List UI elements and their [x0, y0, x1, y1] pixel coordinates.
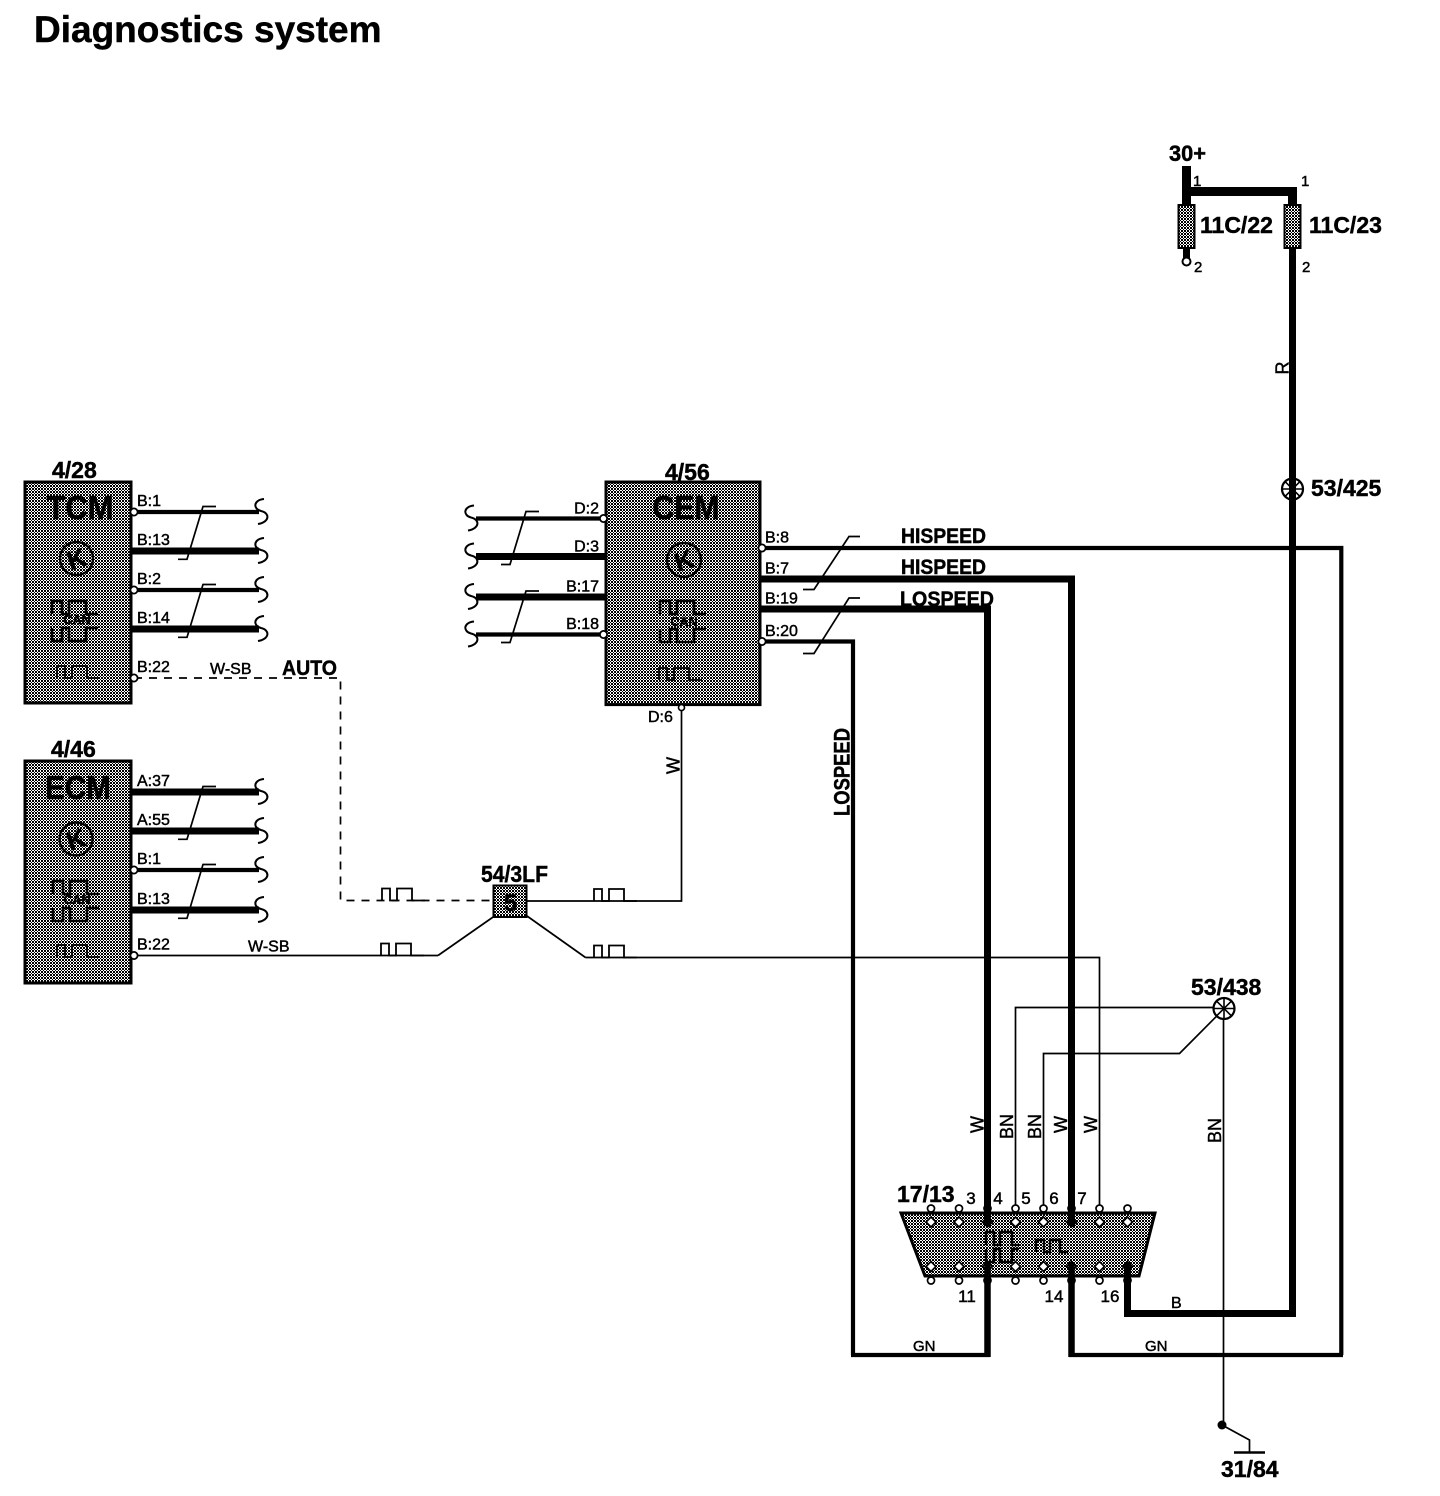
svg-text:B:14: B:14 — [137, 610, 170, 627]
module CEM 4/56 — [606, 459, 760, 705]
twisted pair marker CEM B:17/B:18 — [501, 591, 539, 643]
svg-text:GN: GN — [913, 1338, 936, 1355]
svg-text:11C/23: 11C/23 — [1309, 212, 1382, 238]
svg-text:B:2: B:2 — [137, 571, 161, 588]
svg-text:B:7: B:7 — [765, 561, 789, 578]
wire stub pin 11 to GN bus — [984, 1262, 991, 1357]
CEM pin B:18 wire — [465, 616, 607, 647]
svg-text:4/46: 4/46 — [51, 736, 96, 762]
svg-text:BN: BN — [997, 1114, 1017, 1139]
svg-text:B: B — [1171, 1295, 1182, 1312]
ECM pin B:1 wire — [130, 851, 267, 882]
svg-text:11C/22: 11C/22 — [1200, 212, 1273, 238]
svg-text:B:1: B:1 — [137, 851, 161, 868]
svg-text:5: 5 — [1021, 1189, 1030, 1208]
svg-text:CEM: CEM — [653, 489, 720, 526]
svg-text:11: 11 — [958, 1287, 976, 1306]
svg-text:D:3: D:3 — [574, 539, 599, 556]
fuse 11C/22 — [1179, 205, 1273, 248]
wire connector pin 6 to 53/438 — [1044, 1016, 1217, 1205]
svg-text:B:1: B:1 — [137, 493, 161, 510]
svg-text:53/438: 53/438 — [1191, 974, 1262, 1000]
svg-text:53/425: 53/425 — [1311, 475, 1382, 501]
wire stub pin 4 top — [984, 1204, 991, 1226]
svg-text:B:17: B:17 — [566, 579, 599, 596]
svg-text:CAN: CAN — [670, 615, 697, 629]
ECM pin A:37 wire — [131, 773, 267, 804]
wire stub pin 14 to GN bus — [1068, 1262, 1075, 1357]
svg-text:4/28: 4/28 — [52, 457, 97, 483]
GN bus right wire — [1069, 1353, 1343, 1357]
CEM pin D:2 wire — [465, 501, 607, 531]
connector pin number labels 3 4 5 6 7 — [966, 1189, 1086, 1208]
svg-text:B:22: B:22 — [137, 937, 170, 954]
twisted pair marker CEM B:19/B:20 — [803, 598, 860, 654]
TCM pin B:22 dashed wire W-SB AUTO — [130, 657, 493, 901]
ground 31/84 — [1218, 1421, 1279, 1483]
svg-text:30+: 30+ — [1169, 141, 1206, 166]
svg-text:LOSPEED: LOSPEED — [830, 728, 855, 816]
splice 54/3LF — [481, 861, 548, 917]
CEM pin B:7 wire HISPEED — [760, 556, 1072, 1209]
svg-text:W-SB: W-SB — [210, 661, 251, 678]
twisted pair marker TCM B:2/B:14 — [178, 585, 216, 638]
twisted pair marker CEM B:8/B:7 — [803, 537, 860, 590]
svg-text:BN: BN — [1205, 1118, 1225, 1143]
wire 30+ feed — [1182, 166, 1191, 205]
CEM pin B:17 wire — [465, 579, 606, 610]
svg-text:W: W — [1081, 1116, 1101, 1133]
connector 17/13 top row pins — [926, 1205, 1132, 1227]
connector pin number labels 11 14 16 — [958, 1287, 1119, 1306]
svg-text:B:19: B:19 — [765, 591, 798, 608]
CEM pin B:19 wire LOSPEED — [760, 588, 994, 1209]
svg-text:ECM: ECM — [45, 769, 111, 806]
TCM pin B:13 wire — [131, 532, 267, 563]
ECM pin A:55 wire — [131, 812, 267, 843]
svg-text:2: 2 — [1194, 259, 1202, 276]
svg-text:B:13: B:13 — [137, 891, 170, 908]
CEM pin D:3 wire — [465, 539, 606, 569]
TCM pin B:14 wire — [131, 610, 267, 641]
svg-text:D:2: D:2 — [574, 501, 599, 518]
twisted pair marker TCM B:1/B:13 — [178, 507, 216, 560]
svg-text:HISPEED: HISPEED — [901, 525, 986, 548]
svg-text:5: 5 — [504, 890, 517, 917]
connector 17/13 (DLC) — [897, 1181, 1155, 1276]
connector 53/425 — [1282, 475, 1382, 501]
svg-text:W: W — [664, 757, 684, 774]
CEM pin B:8 wire HISPEED — [758, 525, 1341, 1355]
wire splice lower branch to connector pin (K-line) — [527, 916, 1100, 1205]
svg-text:W: W — [1051, 1116, 1071, 1133]
svg-text:W-SB: W-SB — [248, 939, 289, 956]
svg-text:B:22: B:22 — [137, 659, 170, 676]
ECM pin B:13 wire — [131, 891, 267, 922]
TCM pin B:2 wire — [130, 571, 267, 602]
svg-text:BN: BN — [1025, 1114, 1045, 1139]
connector 17/13 bottom row pins — [926, 1262, 1132, 1284]
svg-text:2: 2 — [1302, 259, 1310, 276]
svg-text:1: 1 — [1301, 173, 1309, 190]
svg-text:16: 16 — [1101, 1287, 1120, 1306]
connector internal wave symbols — [986, 1232, 1068, 1262]
twisted pair marker CEM D:2/D:3 — [501, 512, 539, 565]
CEM pin D:6 — [648, 705, 685, 726]
svg-text:54/3LF: 54/3LF — [481, 861, 548, 887]
svg-text:17/13: 17/13 — [897, 1181, 955, 1207]
svg-text:AUTO: AUTO — [282, 657, 337, 680]
svg-text:CAN: CAN — [63, 613, 90, 627]
GN bus left wire — [851, 1353, 990, 1357]
svg-text:GN: GN — [1145, 1338, 1168, 1355]
svg-text:4: 4 — [993, 1189, 1002, 1208]
svg-text:B:13: B:13 — [137, 532, 170, 549]
svg-text:Diagnostics system: Diagnostics system — [34, 9, 382, 50]
wire R from fuse 11C/23 down to splice — [1128, 248, 1293, 1314]
wire connector pin 5 to 53/438 — [1016, 1008, 1214, 1206]
fuse 11C/22 pin 2 terminal — [1183, 248, 1203, 276]
svg-text:3: 3 — [966, 1189, 975, 1208]
svg-text:R: R — [1273, 362, 1293, 375]
svg-text:B:20: B:20 — [765, 623, 798, 640]
svg-text:A:55: A:55 — [137, 812, 170, 829]
connector 53/438 — [1191, 974, 1262, 1019]
svg-text:31/84: 31/84 — [1221, 1456, 1279, 1482]
wire splice to CEM D:6, W — [527, 710, 684, 901]
svg-text:W: W — [968, 1116, 988, 1133]
module ECM 4/46 — [25, 736, 131, 983]
CEM pin B:20 wire — [758, 623, 853, 1355]
svg-text:CAN: CAN — [63, 893, 90, 907]
twisted pair marker ECM B:1/B:13 — [178, 865, 216, 919]
svg-text:A:37: A:37 — [137, 773, 170, 790]
svg-text:14: 14 — [1045, 1287, 1064, 1306]
wire BN 53/438 to ground — [1205, 1019, 1225, 1425]
svg-text:1: 1 — [1193, 173, 1201, 190]
TCM pin B:1 wire — [130, 493, 267, 524]
wire fuse bus — [1182, 187, 1297, 196]
wire ECM B:22 diagonal to splice — [438, 915, 496, 956]
module TCM 4/28 — [25, 457, 131, 703]
svg-text:6: 6 — [1049, 1189, 1058, 1208]
wire stub pin 16 (B) — [1124, 1262, 1131, 1316]
ECM pin B:22 wire W-SB — [130, 937, 438, 960]
fuse 11C/23 — [1285, 205, 1382, 248]
svg-text:B:18: B:18 — [566, 616, 599, 633]
twisted pair marker ECM A:37/A:55 — [178, 787, 216, 840]
vertical wire colour labels at connector — [968, 1114, 1102, 1139]
wire stub pin 7 top — [1068, 1204, 1075, 1226]
svg-text:TCM: TCM — [47, 489, 114, 526]
svg-text:B:8: B:8 — [765, 530, 789, 547]
svg-text:7: 7 — [1077, 1189, 1086, 1208]
svg-text:D:6: D:6 — [648, 709, 673, 726]
